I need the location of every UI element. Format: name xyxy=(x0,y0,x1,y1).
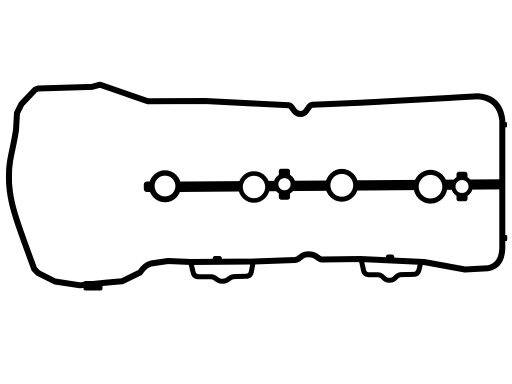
bowtie 2 blob xyxy=(451,176,473,198)
bolt hole 4 outer xyxy=(414,170,448,204)
right bottom tab (pocket) xyxy=(362,261,421,280)
bowtie 1 hole xyxy=(278,178,290,190)
bottom-left solid tab xyxy=(84,281,103,291)
bolt hole 2 outer xyxy=(238,171,270,203)
bolt hole 2 inner xyxy=(243,176,265,198)
bowtie 1 blob xyxy=(274,173,296,195)
bolt hole 1 outer xyxy=(149,170,181,202)
nub above left tab xyxy=(213,256,222,262)
nub above right tab xyxy=(386,255,395,261)
bolt hole 1 inner xyxy=(155,176,176,197)
bolt hole 3 inner xyxy=(330,174,353,197)
gasket outer outline xyxy=(9,85,502,286)
bolt hole 4 inner xyxy=(419,175,443,199)
center rail xyxy=(150,179,503,192)
bowtie 1 ears xyxy=(279,169,290,200)
rail stub left of bolt hole 1 xyxy=(144,182,156,193)
small nub on right edge lower xyxy=(505,235,508,241)
bowtie 2 hole xyxy=(456,180,469,193)
small nub on right edge upper xyxy=(505,122,507,128)
left bottom tab (pocket) xyxy=(191,263,253,281)
bowtie 2 ears xyxy=(457,172,468,202)
bolt hole 3 outer xyxy=(325,169,358,202)
